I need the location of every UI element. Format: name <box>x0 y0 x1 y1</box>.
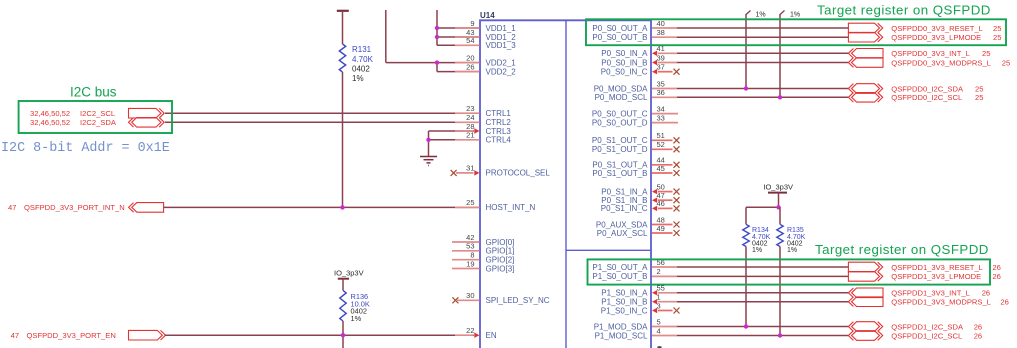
svg-text:P1_MOD_SDA: P1_MOD_SDA <box>594 322 648 331</box>
svg-text:25: 25 <box>993 33 1001 42</box>
svg-text:CTRL3: CTRL3 <box>486 127 512 136</box>
resistor R136 <box>340 290 346 321</box>
svg-text:26: 26 <box>992 263 1000 272</box>
svg-text:QSFPDD_3V3_PORT_INT_N: QSFPDD_3V3_PORT_INT_N <box>24 203 125 212</box>
svg-text:52: 52 <box>657 140 665 149</box>
svg-text:EN: EN <box>486 331 497 340</box>
svg-text:P1_S0_OUT_B: P1_S0_OUT_B <box>592 272 647 281</box>
wire IO_3p3V to R136 <box>342 279 344 291</box>
svg-text:VDD2_1: VDD2_1 <box>486 58 517 67</box>
svg-text:30: 30 <box>466 291 474 300</box>
svg-text:1%: 1% <box>790 12 800 19</box>
pin 56 P1_S0_OUT_A <box>677 266 848 268</box>
svg-text:33: 33 <box>657 113 665 122</box>
svg-text:42: 42 <box>466 233 474 242</box>
svg-text:19: 19 <box>466 259 474 268</box>
junction dot VDD2 <box>435 60 439 64</box>
svg-text:P0_MOD_SDA: P0_MOD_SDA <box>594 84 648 93</box>
svg-text:IO_3p3V: IO_3p3V <box>334 268 364 277</box>
pin 4 P1_MOD_SCL <box>677 335 848 337</box>
svg-text:25: 25 <box>982 49 990 58</box>
svg-text:20: 20 <box>466 53 474 62</box>
resistor R132 (cropped, top) <box>746 11 751 15</box>
power bar (rail above R131) <box>337 10 349 12</box>
wire CTRL3 pin 28 <box>429 130 475 132</box>
port QSFPDD0_3V3_INT_L <box>848 49 883 59</box>
wire R136 below EN <box>342 335 344 348</box>
wire VDD1_1 pin 9 <box>437 27 479 29</box>
svg-text:IO_3p3V: IO_3p3V <box>763 182 793 191</box>
svg-text:1%: 1% <box>351 314 362 323</box>
pin 49 P0_AUX_SCL <box>652 232 673 234</box>
svg-text:VDD1_1: VDD1_1 <box>486 24 517 33</box>
junction dot P0_MOD_SDA <box>744 86 748 90</box>
svg-text:5: 5 <box>657 317 661 326</box>
svg-text:1%: 1% <box>787 247 797 254</box>
IC U14 inner divider horizontal <box>566 249 651 251</box>
svg-text:35: 35 <box>657 79 665 88</box>
svg-text:P0_S1_OUT_C: P0_S1_OUT_C <box>592 136 648 145</box>
wire R133 to P0_MOD_SCL <box>779 14 781 97</box>
port QSFPDD_3V3_PORT_INT_N <box>129 203 164 213</box>
svg-text:4: 4 <box>657 326 661 335</box>
pin 48 P0_AUX_SDA <box>652 224 673 226</box>
svg-text:SPI_LED_SY_NC: SPI_LED_SY_NC <box>486 296 550 305</box>
wire link to R135 <box>779 207 781 224</box>
port QSFPDD1_3V3_INT_L <box>848 288 883 298</box>
resistor R134 <box>743 224 749 246</box>
resistor R133 (cropped, top) <box>780 11 785 15</box>
svg-text:39: 39 <box>657 53 665 62</box>
svg-text:VDD2_2: VDD2_2 <box>486 67 517 76</box>
pin 44 P0_S1_OUT_A <box>652 164 673 166</box>
svg-text:P0_AUX_SCL: P0_AUX_SCL <box>597 229 648 238</box>
pin 46 P0_S1_IN_C <box>658 207 673 209</box>
svg-text:QSFPDD1_3V3_INT_L: QSFPDD1_3V3_INT_L <box>891 289 970 298</box>
svg-text:P1_S0_IN_C: P1_S0_IN_C <box>601 306 648 315</box>
junction dot EN R136 <box>341 333 345 337</box>
pin 7 (cropped at bottom edge) <box>657 346 661 348</box>
svg-text:R135: R135 <box>787 227 804 234</box>
svg-text:1%: 1% <box>752 247 762 254</box>
svg-text:26: 26 <box>1000 298 1008 307</box>
pin 21 CTRL4 <box>455 139 480 141</box>
svg-text:36: 36 <box>657 88 665 97</box>
svg-text:P1_S0_OUT_A: P1_S0_OUT_A <box>592 263 648 272</box>
junction dot IO_3p3V link <box>776 205 780 209</box>
svg-text:QSFPDD1_3V3_RESET_L: QSFPDD1_3V3_RESET_L <box>891 263 983 272</box>
pin 36 P0_MOD_SCL <box>677 96 848 98</box>
svg-text:1%: 1% <box>756 12 766 19</box>
svg-text:P0_MOD_SCL: P0_MOD_SCL <box>595 93 648 102</box>
svg-text:32,46,50,52: 32,46,50,52 <box>30 118 70 127</box>
svg-text:P0_S1_OUT_D: P0_S1_OUT_D <box>592 145 648 154</box>
pin 1 P1_S0_IN_B <box>677 301 848 303</box>
svg-text:GPIO[2]: GPIO[2] <box>486 256 515 265</box>
svg-text:I2C2_SDA: I2C2_SDA <box>80 118 117 127</box>
svg-text:23: 23 <box>466 104 474 113</box>
svg-text:QSFPDD0_3V3_RESET_L: QSFPDD0_3V3_RESET_L <box>891 24 983 33</box>
pin 41 P0_S0_IN_A <box>677 52 848 54</box>
svg-text:P1_S0_IN_B: P1_S0_IN_B <box>601 298 647 307</box>
pin 38 P0_S0_OUT_B <box>677 36 848 38</box>
svg-text:53: 53 <box>466 242 474 251</box>
svg-text:VDD1_3: VDD1_3 <box>486 41 517 50</box>
junction dot P0_MOD_SCL <box>778 95 782 99</box>
pin 43 VDD1_2 <box>455 36 480 38</box>
junction dot P1_MOD_SCL <box>778 333 782 337</box>
pin 47 P0_S1_IN_B <box>658 199 673 201</box>
svg-text:HOST_INT_N: HOST_INT_N <box>486 203 536 212</box>
port QSFPDD1_I2C_SCL <box>848 331 882 341</box>
resistor R131 <box>339 44 345 72</box>
svg-text:GPIO[1]: GPIO[1] <box>486 247 515 256</box>
pin 40 P0_S0_OUT_A <box>677 27 848 29</box>
port QSFPDD1_3V3_RESET_L <box>848 262 882 272</box>
pin 31 PROTOCOL_SEL <box>456 172 474 174</box>
svg-text:CTRL4: CTRL4 <box>486 136 512 145</box>
svg-text:22: 22 <box>466 326 474 335</box>
svg-text:9: 9 <box>470 19 474 28</box>
wire R132 to P0_MOD_SDA <box>745 14 747 89</box>
wire R136 to EN net <box>342 321 344 335</box>
svg-text:QSFPDD0_3V3_MODPRS_L: QSFPDD0_3V3_MODPRS_L <box>891 58 991 67</box>
svg-text:P0_S0_OUT_A: P0_S0_OUT_A <box>592 24 648 33</box>
svg-text:PROTOCOL_SEL: PROTOCOL_SEL <box>486 169 551 178</box>
svg-text:QSFPDD_3V3_PORT_EN: QSFPDD_3V3_PORT_EN <box>27 331 116 340</box>
svg-text:25: 25 <box>993 24 1001 33</box>
svg-text:GPIO[0]: GPIO[0] <box>486 238 515 247</box>
wire CTRL4 pin 21 <box>429 139 480 141</box>
pin 8 GPIO[2] <box>452 259 480 261</box>
svg-text:3: 3 <box>657 301 661 310</box>
svg-text:QSFPDD0_3V3_INT_L: QSFPDD0_3V3_INT_L <box>891 49 970 58</box>
pin 5 P1_MOD_SDA <box>677 326 848 328</box>
pin 28 CTRL3 <box>455 130 474 132</box>
junction dot VDD1_2 <box>435 35 439 39</box>
pin 42 GPIO[0] <box>452 241 480 243</box>
pin 30 SPI_LED_SY_NC <box>457 299 480 301</box>
svg-text:QSFPDD1_3V3_LPMODE: QSFPDD1_3V3_LPMODE <box>891 272 981 281</box>
resistor R135 <box>777 224 783 246</box>
svg-text:GPIO[3]: GPIO[3] <box>486 264 515 273</box>
port I2C2_SCL <box>129 108 165 118</box>
port I2C2_SDA <box>129 118 165 128</box>
junction dot CTRL4 ground <box>426 138 430 142</box>
wire VDD2_2 pin 26 <box>437 71 479 73</box>
svg-text:26: 26 <box>992 272 1000 281</box>
pin 25 HOST_INT_N <box>455 206 480 208</box>
svg-text:31: 31 <box>466 164 474 173</box>
svg-text:25: 25 <box>1002 58 1010 67</box>
port QSFPDD0_I2C_SCL <box>848 93 882 103</box>
pin 55 P1_S0_IN_A <box>677 292 848 294</box>
junction dot VDD1_1 <box>435 26 439 30</box>
svg-text:51: 51 <box>657 131 665 140</box>
svg-text:QSFPDD1_I2C_SCL: QSFPDD1_I2C_SCL <box>891 331 962 340</box>
wire vertical VDD2 drop <box>436 63 438 72</box>
svg-text:32,46,50,52: 32,46,50,52 <box>30 109 70 118</box>
wire VDD2_1 pin 20 <box>437 62 479 64</box>
ground symbol <box>420 156 437 158</box>
wire R134-R135 top link <box>746 206 780 208</box>
wire vertical VDD bus left <box>385 10 387 63</box>
svg-text:I2C bus: I2C bus <box>70 85 117 100</box>
svg-text:49: 49 <box>657 224 665 233</box>
op IC U14 outline <box>480 20 651 348</box>
svg-text:R134: R134 <box>752 227 769 234</box>
svg-text:0402: 0402 <box>352 65 370 74</box>
wire R135 to P1_MOD_SCL <box>779 247 781 336</box>
port QSFPDD_3V3_PORT_EN <box>129 330 166 340</box>
svg-text:R131: R131 <box>352 45 372 54</box>
wire vertical VDD1 bus <box>436 10 438 45</box>
svg-text:P0_S0_IN_A: P0_S0_IN_A <box>601 49 648 58</box>
svg-text:47: 47 <box>8 203 16 212</box>
pin 52 P0_S1_OUT_D <box>652 148 673 150</box>
wire I2C2_SCL to CTRL1 <box>165 112 479 114</box>
wire link to R134 <box>745 207 747 224</box>
svg-text:4.70K: 4.70K <box>352 55 374 64</box>
svg-text:26: 26 <box>974 331 982 340</box>
pin 9 VDD1_1 <box>455 27 480 29</box>
port QSFPDD0_3V3_RESET_L <box>848 23 882 33</box>
svg-text:P0_S0_OUT_C: P0_S0_OUT_C <box>592 109 648 118</box>
svg-text:P0_S0_IN_C: P0_S0_IN_C <box>601 68 648 77</box>
pin 33 P0_S0_OUT_D <box>652 122 678 124</box>
pin 50 P0_S1_IN_A <box>658 191 673 193</box>
svg-text:Target register on QSFPDD: Target register on QSFPDD <box>817 3 991 18</box>
port QSFPDD0_3V3_MODPRS_L <box>848 58 883 68</box>
svg-text:25: 25 <box>466 198 474 207</box>
IC U14 inner divider vertical <box>565 20 567 348</box>
pin 22 EN <box>455 334 474 336</box>
port QSFPDD1_I2C_SDA <box>848 322 882 332</box>
svg-text:U14: U14 <box>480 11 495 20</box>
svg-text:28: 28 <box>466 122 474 131</box>
svg-text:CTRL2: CTRL2 <box>486 118 512 127</box>
wire R134 to P1_MOD_SDA <box>745 247 747 327</box>
pin 54 VDD1_3 <box>455 44 480 46</box>
wire I2C2_SDA to CTRL2 <box>165 121 479 123</box>
port QSFPDD1_3V3_MODPRS_L <box>848 297 883 307</box>
wire power bar to R131 <box>342 11 344 44</box>
port QSFPDD0_I2C_SDA <box>848 84 882 94</box>
svg-text:26: 26 <box>466 62 474 71</box>
svg-text:21: 21 <box>466 131 474 140</box>
svg-text:2: 2 <box>657 267 661 276</box>
svg-text:25: 25 <box>975 93 983 102</box>
svg-text:54: 54 <box>466 36 474 45</box>
svg-text:QSFPDD0_3V3_LPMODE: QSFPDD0_3V3_LPMODE <box>891 33 981 42</box>
junction dot HOST_INT_N R131 <box>340 205 344 209</box>
svg-text:34: 34 <box>657 104 665 113</box>
svg-text:QSFPDD0_I2C_SCL: QSFPDD0_I2C_SCL <box>891 93 962 102</box>
annotation box I2C bus <box>19 101 172 133</box>
svg-text:47: 47 <box>11 331 19 340</box>
svg-text:P0_S0_IN_B: P0_S0_IN_B <box>601 58 647 67</box>
wire EN net <box>165 334 475 336</box>
svg-text:P0_S0_OUT_B: P0_S0_OUT_B <box>592 33 647 42</box>
pin 20 VDD2_1 <box>455 62 480 64</box>
svg-text:Target register on QSFPDD: Target register on QSFPDD <box>815 242 989 257</box>
svg-text:1%: 1% <box>352 74 364 83</box>
svg-text:CTRL1: CTRL1 <box>486 109 512 118</box>
pin 24 CTRL2 <box>455 121 480 123</box>
wire VDD1_3 pin 54 <box>437 44 479 46</box>
svg-text:25: 25 <box>975 84 983 93</box>
svg-text:P0_S1_OUT_B: P0_S1_OUT_B <box>592 169 647 178</box>
svg-text:24: 24 <box>466 113 474 122</box>
svg-text:8: 8 <box>470 251 474 260</box>
pin 3 P1_S0_IN_C <box>658 310 673 312</box>
wire VDD1_2 pin 43 <box>437 36 479 38</box>
svg-text:I2C 8-bit Addr = 0x1E: I2C 8-bit Addr = 0x1E <box>1 141 170 156</box>
svg-text:QSFPDD1_I2C_SDA: QSFPDD1_I2C_SDA <box>891 322 964 331</box>
svg-text:P1_MOD_SCL: P1_MOD_SCL <box>595 331 648 340</box>
port QSFPDD0_3V3_LPMODE <box>848 32 882 42</box>
svg-text:46: 46 <box>657 199 665 208</box>
pin 35 P0_MOD_SDA <box>677 88 848 90</box>
svg-text:P0_S0_OUT_D: P0_S0_OUT_D <box>592 118 648 127</box>
wire R131 to HOST_INT_N net <box>342 72 344 207</box>
svg-text:26: 26 <box>982 289 990 298</box>
annotation box target register 0 <box>586 19 1006 45</box>
pin 34 P0_S0_OUT_C <box>652 113 678 115</box>
junction dot P1_MOD_SDA <box>744 324 748 328</box>
pin 45 P0_S1_OUT_B <box>652 172 673 174</box>
svg-text:45: 45 <box>657 164 665 173</box>
svg-text:I2C2_SCL: I2C2_SCL <box>80 109 115 118</box>
pin 19 GPIO[3] <box>452 268 480 270</box>
port QSFPDD1_3V3_LPMODE <box>848 272 882 282</box>
pin 39 P0_S0_IN_B <box>677 62 848 64</box>
wire IO_3p3V stub <box>778 193 780 208</box>
wire HOST_INT_N <box>164 206 479 208</box>
svg-text:1: 1 <box>657 293 661 302</box>
pin 26 VDD2_2 <box>455 71 480 73</box>
svg-text:38: 38 <box>657 28 665 37</box>
pin 37 P0_S0_IN_C <box>658 71 673 73</box>
svg-text:P0_S1_IN_C: P0_S1_IN_C <box>601 204 648 213</box>
pin 51 P0_S1_OUT_C <box>652 139 673 141</box>
pin 53 GPIO[1] <box>452 250 480 252</box>
svg-text:26: 26 <box>974 322 982 331</box>
svg-text:P1_S0_IN_A: P1_S0_IN_A <box>601 289 648 298</box>
wire VDD bus corner <box>386 62 437 64</box>
svg-text:37: 37 <box>657 63 665 72</box>
annotation box target register 1 <box>588 259 991 284</box>
wire CTRL3 drop to ground <box>428 131 430 156</box>
pin 23 CTRL1 <box>455 112 480 114</box>
svg-text:QSFPDD1_3V3_MODPRS_L: QSFPDD1_3V3_MODPRS_L <box>891 298 991 307</box>
pin 2 P1_S0_OUT_B <box>677 275 848 277</box>
svg-text:QSFPDD0_I2C_SDA: QSFPDD0_I2C_SDA <box>891 84 964 93</box>
